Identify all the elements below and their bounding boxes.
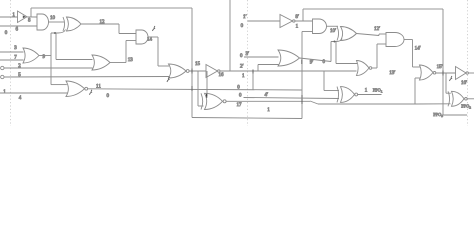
- inverter 16: [206, 65, 224, 79]
- wire net 8prime vertical to ppo3: [443, 9, 467, 115]
- wire input 2: [4, 64, 93, 69]
- svg-text:0: 0: [240, 54, 243, 59]
- or-gate 13prime: [357, 61, 396, 77]
- crossing tick 15prime x443: [442, 71, 444, 76]
- or-gate 9: [23, 48, 51, 63]
- svg-text:PPO2: PPO2: [461, 103, 471, 109]
- xnor-gate ppo1: [337, 87, 383, 103]
- or-gate 13: [92, 55, 133, 70]
- wire 9 riser: [50, 33, 52, 85]
- feedback riser to and 10prime: [302, 32, 313, 119]
- dotted frame boundary right: [467, 0, 469, 126]
- svg-text:PPO1: PPO1: [373, 87, 383, 93]
- inverter 16prime: [456, 67, 474, 87]
- wire 15 branch to xnor 17 lower: [198, 71, 204, 106]
- svg-text:15: 15: [195, 62, 201, 67]
- crossing tick 9prime x302: [301, 60, 303, 65]
- wire 11: [88, 85, 302, 99]
- wire 12prime: [357, 27, 387, 36]
- wire 4prime: [239, 93, 339, 99]
- wire 10prime to xor: [327, 25, 339, 27]
- wire input 3: [0, 46, 24, 52]
- node 8prime junction: [302, 9, 304, 21]
- svg-text:13: 13: [128, 58, 134, 63]
- svg-text:13′: 13′: [389, 71, 395, 76]
- wire into or 9prime lower: [258, 64, 279, 66]
- svg-text:1: 1: [3, 90, 6, 95]
- svg-text:17: 17: [237, 103, 243, 108]
- svg-text:3: 3: [14, 46, 17, 51]
- buffer gate 8: [18, 11, 38, 24]
- or-gate 9prime: [278, 50, 331, 66]
- nor-gate 15prime: [420, 65, 456, 80]
- svg-text:4′: 4′: [265, 93, 269, 98]
- wire 9prime branch to or 13prime: [336, 42, 357, 64]
- inverter 8prime: [280, 15, 313, 30]
- svg-text:PPO3: PPO3: [433, 112, 443, 118]
- wire input 4: [0, 90, 68, 101]
- xor-gate 12prime: [337, 27, 357, 41]
- wire 13 riser to and 14: [126, 41, 136, 63]
- wire 17: [226, 101, 415, 108]
- svg-text:2′: 2′: [240, 64, 244, 69]
- value 1 tick at xnor 17 input: [206, 94, 208, 98]
- xnor-gate ppo2: [448, 91, 474, 109]
- and-gate 14prime: [386, 33, 421, 52]
- riser or 9prime lower input: [257, 65, 259, 72]
- wire 17 riser to nor 15prime: [415, 78, 421, 104]
- wire 12: [81, 20, 136, 34]
- wire 2prime branch to nor ppo1: [324, 71, 339, 91]
- and-gate 10prime: [313, 19, 337, 34]
- svg-text:3′: 3′: [246, 52, 250, 57]
- fault mark on wire 15prime: [450, 76, 453, 81]
- nor-gate 11: [66, 81, 88, 97]
- svg-text:14′: 14′: [415, 46, 421, 51]
- svg-text:0: 0: [239, 94, 242, 99]
- and-gate 14: [136, 30, 153, 44]
- svg-text:9′: 9′: [310, 61, 314, 66]
- svg-text:1: 1: [267, 108, 270, 113]
- crossing tick wire11 x192: [191, 86, 193, 91]
- wire 17 extension to xnor ppo2: [415, 103, 451, 105]
- terminal input 5: [1, 75, 4, 78]
- svg-text:1: 1: [296, 24, 299, 29]
- bottom feedback wire net 8: [192, 108, 302, 118]
- crossing tick 2prime x253: [252, 70, 254, 74]
- svg-text:0: 0: [5, 31, 8, 36]
- wire input 1: [0, 13, 18, 18]
- svg-text:10′: 10′: [330, 29, 336, 34]
- svg-text:8: 8: [28, 19, 31, 24]
- svg-text:1′: 1′: [243, 15, 247, 20]
- and-gate 10: [37, 14, 56, 30]
- junction dot node 9prime: [334, 41, 336, 43]
- wire 15prime branch to xnor ppo2: [446, 73, 451, 93]
- wire net8 vertical to bottom: [191, 8, 193, 118]
- svg-text:8′: 8′: [295, 15, 299, 20]
- svg-text:16: 16: [219, 73, 225, 78]
- svg-text:12: 12: [100, 20, 106, 25]
- wire 14prime to nor 15prime: [404, 40, 420, 68]
- svg-text:0: 0: [241, 24, 244, 29]
- wire 9 branch hook to xor 12: [51, 30, 66, 34]
- svg-text:6: 6: [16, 28, 19, 33]
- dotted frame boundary middle: [247, 0, 249, 126]
- junction dot node 9: [54, 32, 56, 34]
- wire 10 to xor: [49, 21, 65, 23]
- xor-gate 12: [63, 17, 81, 31]
- crossing tick 17 x302: [301, 99, 303, 104]
- fault mark on wire 5 at nor 15: [167, 77, 170, 82]
- fault mark on wire 11: [90, 90, 93, 95]
- svg-text:0: 0: [107, 94, 110, 99]
- svg-text:14: 14: [147, 38, 153, 43]
- wire 13prime riser to and 14prime: [377, 44, 386, 68]
- wire top net 8: [31, 7, 192, 9]
- wire 5 branch into nor 11: [51, 84, 67, 86]
- xnor-gate 17: [201, 93, 226, 109]
- svg-text:12′: 12′: [374, 27, 380, 32]
- wire 9prime hook to xor 12prime: [331, 39, 342, 42]
- wire input 6: [0, 26, 37, 36]
- wire 15 branch to xnor 17 upper: [206, 71, 208, 97]
- wire top net 8prime: [303, 8, 443, 10]
- wire 9 branch to or 13: [56, 33, 93, 60]
- svg-text:15′: 15′: [437, 65, 443, 70]
- nor-gate 15: [169, 62, 207, 78]
- fault mark on wire 14: [153, 26, 156, 31]
- svg-text:16′: 16′: [461, 81, 467, 86]
- wire input 3prime: [240, 52, 279, 59]
- crossing tick 4prime x302: [301, 95, 303, 100]
- node 8 junction: [30, 8, 32, 17]
- svg-text:4: 4: [19, 96, 22, 101]
- terminal input 2: [1, 66, 4, 69]
- wire input 5: [4, 73, 169, 78]
- svg-text:1: 1: [365, 88, 368, 93]
- wire 16 output net 2prime: [220, 64, 357, 79]
- wire input 1prime: [241, 15, 280, 29]
- svg-text:1: 1: [242, 74, 245, 79]
- dotted frame boundary left: [10, 0, 12, 126]
- svg-text:11: 11: [96, 85, 101, 90]
- wire 9prime riser: [330, 42, 332, 62]
- wire 14 to nor 15: [148, 37, 169, 66]
- crossing tick wire15 x192: [191, 69, 193, 74]
- svg-text:10: 10: [50, 16, 56, 21]
- wire from top edge to node 2prime: [229, 0, 231, 71]
- riser node 2prime to wire 11: [252, 72, 254, 91]
- wire input 7: [0, 56, 24, 61]
